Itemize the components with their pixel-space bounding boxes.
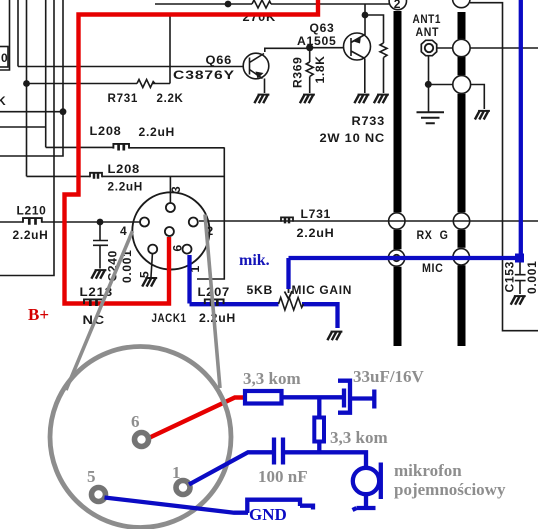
node junction dot (97, 219, 104, 226)
svg-text:mikrofon: mikrofon (394, 461, 462, 480)
wire: pin 3 riser (169, 176, 171, 202)
inductor L207 bumps (205, 299, 224, 306)
pin 5 pad (92, 488, 106, 502)
svg-text:L208: L208 (90, 124, 122, 138)
ground Q63 (354, 95, 369, 104)
ground pin5 (142, 278, 157, 287)
resistor R731 (137, 80, 155, 88)
svg-text:5: 5 (87, 467, 96, 486)
big circle (50, 347, 231, 528)
pin 1 pad (176, 481, 190, 495)
svg-text:L210: L210 (17, 204, 47, 218)
wire: vertical bus line 2 (17, 0, 19, 67)
node junction dot (362, 12, 369, 19)
svg-text:B+: B+ (28, 305, 49, 324)
svg-text:3,3 kom: 3,3 kom (330, 428, 388, 447)
thick bus bar 1 (394, 11, 402, 346)
component box at left edge (0, 47, 8, 68)
ground small right (475, 111, 490, 120)
magnifier cone line left (66, 231, 133, 390)
connector circle JACK1 (132, 192, 209, 269)
svg-text:2.2uH: 2.2uH (13, 228, 49, 242)
wiper arrow black (285, 289, 293, 299)
connector circle below ANT (453, 76, 471, 94)
wire red: B+ top rail (65, 0, 319, 304)
wire blue: pin5 to GND (105, 498, 249, 513)
svg-text:100 nF: 100 nF (258, 467, 308, 486)
pin 1 (183, 245, 192, 254)
node circle top of bar 2 (453, 0, 470, 8)
svg-text:2.2uH: 2.2uH (139, 125, 176, 139)
inductor L208 (113, 144, 129, 151)
pin 2 (189, 218, 198, 227)
svg-text:pojemnościowy: pojemnościowy (394, 480, 506, 499)
wire: vertical from red B+ to R731 (169, 15, 171, 84)
wire: top 270K row (155, 3, 252, 5)
wire: top right box (470, 3, 538, 331)
wire: pin 5 to ground (151, 254, 152, 277)
svg-text:1.8K: 1.8K (313, 55, 327, 83)
pin 4 (140, 218, 149, 227)
node blue dot (515, 254, 524, 263)
svg-text:3: 3 (169, 186, 183, 193)
svg-text:L731: L731 (301, 207, 332, 221)
svg-text:270K: 270K (243, 10, 277, 24)
connector circle RX G row bar1 (389, 213, 405, 229)
svg-text:1: 1 (172, 463, 181, 482)
resistor 3,3 kom vertical (314, 418, 387, 448)
svg-text:2.2uH: 2.2uH (297, 226, 335, 240)
svg-text:K: K (0, 94, 6, 108)
wire blue: pin1 drop and L207 row (190, 255, 279, 304)
capacitor 100 nF (258, 438, 308, 487)
wire blue: pot right to ground (302, 304, 338, 328)
node junction dot (225, 1, 232, 8)
svg-text:MIC GAIN: MIC GAIN (292, 283, 353, 297)
svg-text:A1505: A1505 (297, 34, 337, 48)
pin 3 (166, 203, 175, 212)
svg-text:5: 5 (137, 271, 151, 278)
microphone mikrofon pojemnosciowy (353, 461, 506, 510)
node junction dot (60, 108, 67, 115)
svg-text:4: 4 (120, 224, 127, 238)
inductor L209 (90, 173, 102, 179)
svg-text:0.001: 0.001 (525, 260, 538, 294)
transistor Q63 (344, 33, 371, 60)
svg-text:33uF/16V: 33uF/16V (353, 367, 425, 386)
node junction dot (23, 80, 30, 87)
svg-text:0: 0 (1, 51, 8, 65)
ANT jack pad (421, 40, 436, 55)
svg-text:mik.: mik. (239, 252, 270, 269)
svg-text:JACK1: JACK1 (152, 311, 187, 325)
wire blue: junction down (317, 397, 321, 417)
wire: Q63 collector down (364, 59, 366, 94)
wire: left stub y127 (0, 126, 46, 128)
inductor L213 bumps (84, 299, 103, 306)
svg-text:C153: C153 (503, 261, 517, 293)
wire blue: 100nF to mic (285, 452, 366, 466)
svg-text:Q66: Q66 (206, 53, 233, 67)
wire: Q63 emitter from top rail (364, 4, 366, 35)
wire: vertical bus line 4 (45, 0, 47, 147)
wire: Q66 base line (18, 66, 244, 68)
svg-text:L208: L208 (108, 162, 141, 176)
connector circle MIC row bar1 with dot (388, 250, 404, 266)
node junction dot (425, 81, 432, 88)
resistor 3,3 kom horizontal (243, 369, 301, 404)
wire blue: resistor to cap (282, 395, 344, 399)
svg-text:2: 2 (394, 0, 401, 11)
wire blue: right edge vertical (519, 0, 523, 258)
connector circle RX G row bar2 (453, 213, 469, 229)
wire blue: pin1 to 100nF (189, 452, 272, 484)
svg-text:C3876Y: C3876Y (173, 68, 235, 82)
wire: ANT row (437, 47, 538, 49)
svg-text:2.2K: 2.2K (157, 91, 184, 105)
wire: RX G row (199, 220, 538, 222)
wire: L209 row (27, 175, 91, 177)
svg-text:2.2uH: 2.2uH (199, 311, 236, 325)
wire: L208 row one (46, 146, 114, 148)
resistor R368 branch (365, 15, 387, 93)
wire red: pin6 to 3.3k resistor (bottom) (150, 398, 246, 438)
wire: vertical bus line 3 (26, 0, 28, 176)
node circle 2 (389, 0, 406, 11)
magnifier cone line right (205, 215, 220, 389)
svg-text:2.2uH: 2.2uH (108, 180, 144, 194)
ground ANT earth (417, 112, 445, 123)
wire: ANT pad to ground (429, 56, 453, 112)
wire: Q66 collector up to A1505 node (265, 48, 310, 52)
ground R368 (374, 95, 389, 104)
svg-text:ANT: ANT (416, 25, 440, 39)
node junction dot (306, 44, 313, 51)
capacitor 33uF/16V (338, 367, 425, 413)
svg-text:3,3 kom: 3,3 kom (243, 369, 301, 388)
svg-text:GND: GND (249, 505, 287, 524)
pin 6 center (165, 227, 174, 236)
wire blue: MIC row (289, 256, 520, 260)
connector circle MIC row bar2 (453, 249, 469, 265)
capacitor C240 (93, 222, 108, 269)
wire: hex node right to small ground (471, 85, 485, 110)
potentiometer zigzag black (279, 298, 304, 311)
svg-text:6: 6 (131, 412, 140, 431)
ground C240 (91, 270, 106, 279)
wire: left stub y111 (0, 111, 63, 113)
wire: Q66 emitter to ground (264, 79, 266, 94)
resistor 270K (252, 0, 271, 8)
svg-text:R369: R369 (291, 57, 305, 89)
svg-text:MIC: MIC (422, 261, 444, 275)
ground Q66 (254, 95, 269, 104)
inductor L731 (281, 217, 293, 223)
transistor Q66 (173, 53, 269, 82)
wire: vertical bus line 5 (0, 0, 54, 276)
svg-text:R731: R731 (108, 91, 139, 105)
connector circle ANT row (453, 39, 470, 56)
wire: left box L-shape (0, 0, 10, 70)
wire: jack box right edge (197, 147, 224, 279)
ground MIC GAIN (327, 332, 342, 341)
svg-text:Q63: Q63 (310, 21, 335, 35)
wire: R731 row (27, 83, 138, 85)
pin 6 pad (135, 433, 149, 447)
svg-text:2W 10 NC: 2W 10 NC (320, 131, 386, 145)
wire: A1505 node row (310, 47, 344, 49)
svg-text:5KB: 5KB (247, 283, 274, 297)
thick bus bar 2 (458, 12, 466, 346)
svg-text:ANT1: ANT1 (413, 12, 442, 26)
pin 5 (148, 245, 157, 254)
GND label box (247, 500, 313, 524)
svg-text:RX G: RX G (417, 228, 449, 242)
capacitor C153 (515, 261, 526, 294)
wire: vertical bus line 6 (0, 0, 63, 156)
svg-text:R733: R733 (352, 114, 386, 128)
resistor R369 (306, 48, 313, 93)
inductor L210 (23, 218, 42, 225)
wire blue: wiper drop (286, 258, 290, 289)
wire: main row through L210 (0, 221, 23, 223)
